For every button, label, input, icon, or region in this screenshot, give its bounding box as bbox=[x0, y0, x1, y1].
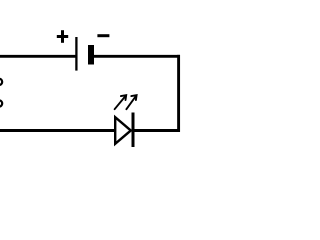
switch S1 terminal (lower) bbox=[0, 100, 2, 106]
wire: top-left segment bbox=[0, 55, 77, 58]
LED D1 light arrow 2 bbox=[126, 95, 136, 109]
LED D1 triangle (anode) bbox=[115, 117, 131, 144]
label plus bbox=[57, 30, 68, 43]
label minus bbox=[97, 34, 109, 37]
LED D1 light arrow 1 bbox=[115, 95, 127, 109]
battery B1 positive plate bbox=[75, 37, 77, 71]
switch S1 terminal (upper) bbox=[0, 79, 2, 85]
wire: top-right segment bbox=[91, 55, 180, 58]
LED D1 cathode bar bbox=[132, 113, 135, 148]
battery B1 negative plate bbox=[88, 45, 94, 65]
wire: right vertical segment bbox=[177, 55, 180, 132]
wire: bottom-left segment (to LED anode) bbox=[0, 129, 116, 132]
wire: bottom-right segment (from LED cathode) bbox=[133, 129, 181, 132]
